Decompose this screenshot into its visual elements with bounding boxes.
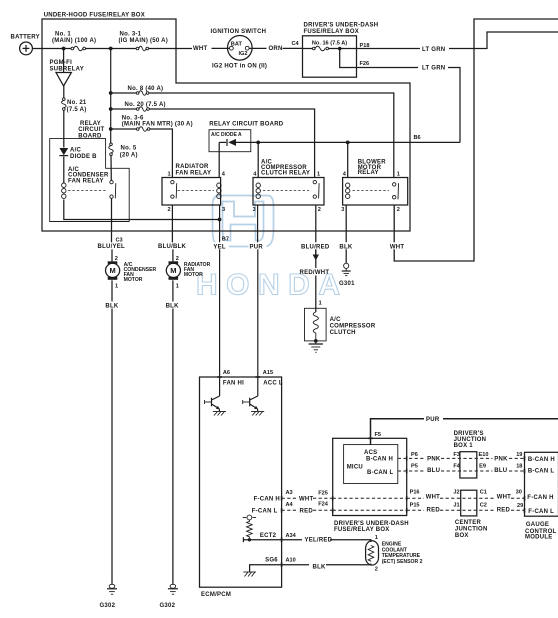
- wire PNK dashed B-CAN H row: [398, 457, 425, 459]
- svg-text:(MAIN FAN MTR) (30 A): (MAIN FAN MTR) (30 A): [122, 121, 193, 127]
- A/C compressor clutch box: [305, 308, 327, 341]
- svg-text:A34: A34: [286, 533, 297, 539]
- svg-text:RELAY: RELAY: [80, 121, 101, 127]
- svg-text:PUR: PUR: [426, 417, 440, 423]
- svg-text:1: 1: [375, 535, 378, 541]
- wire blower relay pin 4 riser: [347, 142, 349, 177]
- svg-text:2: 2: [176, 256, 179, 262]
- svg-text:PNK: PNK: [494, 457, 508, 463]
- svg-text:BLK: BLK: [313, 565, 326, 571]
- label radiator fan motor: [184, 262, 211, 278]
- svg-text:GAUGE: GAUGE: [526, 522, 549, 528]
- watermark Honda H logo: [213, 196, 274, 247]
- wire PUR net lower right: [371, 419, 425, 445]
- wire YEL/RED to ECT sensor: [282, 539, 302, 541]
- svg-text:(7.5 A): (7.5 A): [67, 107, 87, 113]
- svg-text:1: 1: [115, 284, 118, 290]
- condenser relay dashed link: [68, 189, 106, 191]
- label ECT sensor: [382, 542, 423, 566]
- svg-text:CENTER: CENTER: [455, 520, 482, 526]
- radiator relay dashed link: [178, 189, 215, 191]
- driver's junction box 1: [460, 452, 477, 478]
- svg-text:A4: A4: [286, 502, 294, 508]
- svg-text:BLU/BLK: BLU/BLK: [158, 244, 186, 250]
- center junction box: [461, 490, 477, 516]
- svg-text:F-CAN H: F-CAN H: [527, 495, 553, 501]
- wire No.20 fuse row to compressor relay pin 1: [111, 108, 137, 110]
- A/C diode A: [227, 139, 236, 146]
- svg-text:JUNCTION: JUNCTION: [455, 527, 488, 533]
- pin ticks P6 P5 P16 P15: [406, 456, 408, 461]
- wire No.16 fuse internal: [303, 48, 313, 50]
- wire BLK to ECT sensor pin 2: [282, 564, 309, 566]
- ground G301: [342, 263, 351, 275]
- svg-text:RED: RED: [300, 508, 314, 514]
- svg-text:No. 1: No. 1: [55, 31, 71, 37]
- wire No.3-6 fuse row to radiator fan relay pin 1: [111, 128, 137, 130]
- svg-text:E9: E9: [479, 463, 486, 469]
- svg-text:CIRCUIT: CIRCUIT: [78, 127, 104, 133]
- wire condenser contact to C3 BLU/YEL motor: [111, 198, 113, 243]
- svg-text:B7: B7: [222, 237, 229, 243]
- A/C compressor clutch coil: [313, 312, 318, 341]
- pin ticks gauge 19 18 30 29: [524, 456, 526, 461]
- svg-text:ORN: ORN: [269, 46, 283, 52]
- ground G302 left: [107, 584, 117, 594]
- svg-text:3: 3: [341, 207, 344, 213]
- wire No.8 fuse row to blower pin 1: [111, 92, 137, 94]
- svg-text:F-CAN L: F-CAN L: [252, 508, 278, 514]
- svg-text:RADIATOR: RADIATOR: [176, 164, 210, 170]
- ground compressor clutch: [309, 341, 323, 352]
- wire subrelay to fuse No.21: [63, 86, 65, 98]
- driver's under-dash fuse/relay box (lower): [333, 438, 407, 515]
- svg-text:B6: B6: [414, 135, 421, 141]
- svg-text:3: 3: [222, 207, 225, 213]
- svg-text:F4: F4: [453, 463, 460, 469]
- svg-text:FAN RELAY: FAN RELAY: [68, 179, 104, 185]
- wire radiator relay pin 3 B7 YEL to ECM A6: [219, 205, 221, 243]
- A/C condenser fan motor: [106, 261, 120, 280]
- svg-text:PUR: PUR: [250, 245, 264, 251]
- svg-text:G302: G302: [160, 603, 176, 609]
- svg-text:A/C: A/C: [330, 317, 342, 323]
- svg-text:1: 1: [176, 284, 179, 290]
- A/C diode A box: [209, 130, 251, 152]
- svg-text:FAN HI: FAN HI: [223, 380, 244, 386]
- ignition switch: [228, 36, 253, 61]
- wire compressor relay pin 4 riser: [257, 142, 259, 177]
- svg-text:COMPRESSOR: COMPRESSOR: [330, 323, 376, 329]
- svg-text:BLK: BLK: [166, 303, 179, 309]
- wire F-CAN H dashed through fuse box: [333, 497, 407, 499]
- driver's under-dash fuse/relay box (top): [303, 36, 357, 77]
- svg-text:SUBRELAY: SUBRELAY: [50, 66, 84, 72]
- wire color labels row: [97, 242, 408, 250]
- svg-text:2: 2: [318, 207, 321, 213]
- svg-text:P15: P15: [410, 503, 420, 509]
- fuse No.21 (7.5A) vertical: [62, 98, 67, 111]
- radiator fan relay box: [162, 178, 221, 206]
- pin tick A3: [281, 496, 283, 501]
- svg-text:A10: A10: [286, 558, 296, 564]
- wire F-CAN L dashed through fuse box: [333, 509, 407, 511]
- svg-text:BATTERY: BATTERY: [11, 35, 40, 41]
- compressor relay contact: [313, 180, 319, 198]
- svg-text:No. 16 (7.5 A): No. 16 (7.5 A): [312, 40, 347, 46]
- wire F26 branch: [340, 49, 418, 68]
- wire compressor relay pin 3 PUR to ECM A15: [257, 205, 259, 243]
- svg-text:1: 1: [317, 172, 320, 178]
- svg-text:IG2: IG2: [239, 51, 248, 57]
- svg-text:F-CAN L: F-CAN L: [528, 509, 554, 515]
- svg-text:PNK: PNK: [427, 457, 441, 463]
- pin tick A34: [281, 537, 283, 542]
- fuse No.20 (7.5A): [136, 107, 149, 112]
- svg-text:G302: G302: [100, 603, 116, 609]
- ECT sensor 2 body: [366, 541, 379, 565]
- svg-text:MOTOR: MOTOR: [184, 272, 203, 278]
- connector arrow on BLU/RED wire: [313, 249, 319, 261]
- svg-text:2: 2: [375, 567, 378, 573]
- svg-text:P16: P16: [410, 490, 420, 496]
- svg-text:ECM/PCM: ECM/PCM: [201, 592, 231, 598]
- svg-text:BLU: BLU: [427, 468, 440, 474]
- svg-text:MICU: MICU: [347, 464, 363, 470]
- wire BLU/RED connector to RED/WHT: [315, 249, 317, 268]
- svg-text:E10: E10: [479, 452, 489, 458]
- svg-text:J2: J2: [453, 490, 459, 496]
- svg-text:BLU/YEL: BLU/YEL: [98, 244, 126, 250]
- svg-text:FUSE/RELAY BOX: FUSE/RELAY BOX: [304, 29, 360, 35]
- wire RED/WHT to compressor clutch: [315, 276, 317, 313]
- svg-text:F5: F5: [375, 432, 382, 438]
- wire A15 internal to transistor Q2: [257, 377, 259, 396]
- svg-text:30: 30: [516, 490, 522, 496]
- A/C diode B: [59, 148, 68, 156]
- svg-text:BOX 1: BOX 1: [454, 443, 474, 449]
- svg-text:WHT: WHT: [299, 496, 313, 502]
- wire condenser relay coil return to radiator relay pin 3 node: [64, 200, 219, 220]
- svg-text:C4: C4: [292, 41, 300, 47]
- pin tick A15: [255, 376, 260, 378]
- blower relay contact: [393, 183, 399, 200]
- pin tick A4: [281, 508, 283, 513]
- svg-text:RELAY: RELAY: [358, 170, 379, 176]
- svg-text:BLU/RED: BLU/RED: [301, 245, 330, 251]
- wire blower relay pin 3 BLK to G301: [345, 205, 347, 243]
- svg-text:LT GRN: LT GRN: [422, 65, 445, 71]
- svg-text:F3: F3: [453, 452, 460, 458]
- wire BLU dashed B-CAN L row: [398, 470, 425, 472]
- compressor relay coil: [256, 183, 260, 198]
- transistor Q1 FAN HI: [205, 396, 220, 411]
- A/C condenser fan relay outline: [50, 139, 130, 222]
- fuse No.5 (20A) vertical: [109, 143, 114, 156]
- svg-text:CLUTCH: CLUTCH: [330, 330, 356, 336]
- svg-text:C1: C1: [480, 490, 487, 496]
- blower motor relay box: [343, 178, 408, 206]
- wire condenser motor to G302: [111, 280, 113, 301]
- svg-text:19: 19: [516, 452, 522, 458]
- fuse No.16 (7.5A): [313, 46, 329, 51]
- svg-text:BLU: BLU: [494, 468, 507, 474]
- resistor pull-up ECT2: [243, 515, 256, 538]
- svg-text:DRIVER'S UNDER-DASH: DRIVER'S UNDER-DASH: [304, 23, 379, 29]
- svg-text:WHT: WHT: [497, 495, 511, 501]
- battery: [20, 42, 33, 55]
- svg-text:C2: C2: [480, 503, 487, 509]
- svg-text:F26: F26: [360, 61, 370, 67]
- svg-text:RED: RED: [427, 508, 441, 514]
- ground SG6: [243, 572, 256, 577]
- svg-text:M: M: [170, 266, 176, 275]
- pin tick A6: [217, 376, 222, 378]
- svg-text:No. 20 (7.5 A): No. 20 (7.5 A): [125, 102, 166, 108]
- svg-text:A/C: A/C: [70, 148, 82, 154]
- wire diode B to condenser relay coil: [63, 157, 65, 184]
- svg-text:P5: P5: [411, 463, 418, 469]
- svg-text:(MAIN) (100 A): (MAIN) (100 A): [52, 38, 96, 44]
- svg-text:2: 2: [167, 207, 170, 213]
- wire No.5 fuse to condenser relay contact: [110, 156, 112, 181]
- svg-text:BLK: BLK: [105, 303, 118, 309]
- condenser relay coil: [62, 183, 66, 198]
- svg-text:ACS: ACS: [364, 450, 377, 456]
- svg-text:F-CAN H: F-CAN H: [254, 497, 280, 503]
- svg-text:PGM-FI: PGM-FI: [50, 60, 73, 66]
- wire LT GRN from F26 down to coil line: [448, 68, 460, 143]
- fuse No.1 (MAIN)(100A): [71, 46, 85, 51]
- svg-text:A3: A3: [286, 490, 293, 496]
- svg-text:P6: P6: [411, 452, 418, 458]
- svg-text:A15: A15: [263, 370, 273, 376]
- ground G302 right: [168, 584, 178, 594]
- svg-text:2: 2: [397, 207, 400, 213]
- MICU box: [344, 445, 398, 484]
- svg-text:RED/WHT: RED/WHT: [300, 270, 330, 276]
- wire fuse feeder vertical: [110, 49, 112, 144]
- svg-text:BOX: BOX: [455, 533, 469, 539]
- pin tick F5: [368, 437, 373, 439]
- svg-text:FUSE/RELAY BOX: FUSE/RELAY BOX: [334, 527, 390, 533]
- wire battery main bus: [32, 48, 71, 50]
- svg-text:DRIVER'S UNDER-DASH: DRIVER'S UNDER-DASH: [334, 521, 409, 527]
- wire WHT dashed P16 to J2 C1 30: [407, 497, 424, 499]
- svg-text:F25: F25: [318, 491, 328, 497]
- wire radiator relay pin 2 BLU/BLK to motor: [171, 205, 173, 243]
- svg-text:P18: P18: [360, 43, 370, 49]
- svg-text:F24: F24: [318, 501, 329, 507]
- ground transistor Q1: [213, 412, 226, 416]
- svg-text:A/C DIODE A: A/C DIODE A: [211, 132, 242, 138]
- pin tick A10: [281, 562, 283, 567]
- pin ticks F25 F24: [332, 496, 334, 501]
- svg-text:YEL: YEL: [213, 245, 226, 251]
- svg-text:DIODE B: DIODE B: [70, 154, 97, 160]
- gauge control module box: [525, 452, 558, 516]
- svg-text:CLUTCH RELAY: CLUTCH RELAY: [261, 171, 310, 177]
- svg-text:18: 18: [516, 463, 522, 469]
- svg-text:1: 1: [167, 172, 170, 178]
- svg-text:A6: A6: [223, 370, 230, 376]
- svg-text:J1: J1: [453, 503, 459, 509]
- blower relay dashed link: [353, 189, 390, 191]
- wire A6 internal to transistor Q1: [219, 377, 221, 396]
- svg-text:1: 1: [397, 172, 400, 178]
- svg-text:No. 5: No. 5: [121, 146, 137, 152]
- svg-text:UNDER-HOOD FUSE/RELAY BOX: UNDER-HOOD FUSE/RELAY BOX: [44, 13, 145, 19]
- svg-text:MOTOR: MOTOR: [124, 277, 143, 283]
- fuse No.8 (40A): [136, 91, 149, 96]
- wire radiator motor to G302: [172, 280, 174, 301]
- svg-text:RED: RED: [497, 508, 511, 514]
- svg-text:(IG MAIN) (50 A): (IG MAIN) (50 A): [119, 38, 168, 44]
- wire RED dashed P15 to J1 C2 29: [407, 509, 424, 511]
- svg-text:2: 2: [115, 256, 118, 262]
- radiator fan relay coil: [217, 183, 221, 198]
- svg-text:29: 29: [517, 503, 523, 509]
- svg-text:3: 3: [253, 207, 256, 213]
- svg-text:BOARD: BOARD: [78, 133, 102, 139]
- svg-text:ACC L: ACC L: [263, 380, 283, 386]
- svg-text:RELAY CIRCUIT BOARD: RELAY CIRCUIT BOARD: [209, 121, 284, 127]
- svg-text:LT GRN: LT GRN: [422, 47, 445, 53]
- svg-text:B-CAN L: B-CAN L: [367, 470, 393, 476]
- svg-text:ECT2: ECT2: [260, 533, 277, 539]
- svg-text:B-CAN H: B-CAN H: [528, 457, 555, 463]
- svg-text:B-CAN L: B-CAN L: [528, 469, 554, 475]
- wire fuse No.21 to diode B: [63, 110, 65, 147]
- radiator fan relay contact: [171, 180, 177, 198]
- condenser relay contact: [110, 180, 116, 198]
- blower relay coil: [346, 183, 350, 198]
- fuse No.3-1 (IG MAIN)(50A): [136, 46, 148, 51]
- wire relay coil power line B6: [219, 141, 226, 143]
- svg-text:SG6: SG6: [265, 558, 278, 564]
- svg-text:WHT: WHT: [390, 245, 404, 251]
- under-hood fuse/relay box: [42, 19, 410, 231]
- wire F-CAN H dashed A3 to F25: [282, 497, 297, 499]
- svg-text:No. 8 (40 A): No. 8 (40 A): [128, 86, 164, 92]
- wire LT GRN from P18 to top right edge: [357, 48, 421, 50]
- wire ECT2 A34 internal: [243, 537, 281, 542]
- svg-text:G301: G301: [339, 281, 355, 287]
- A/C compressor clutch relay box: [253, 178, 324, 206]
- svg-text:FAN RELAY: FAN RELAY: [176, 171, 212, 177]
- svg-text:B-CAN H: B-CAN H: [366, 456, 393, 462]
- label A/C condenser fan motor: [124, 262, 157, 283]
- svg-text:(ECT) SENSOR 2: (ECT) SENSOR 2: [382, 559, 423, 565]
- transistor Q2 ACC L: [243, 396, 258, 411]
- svg-text:M: M: [109, 266, 115, 275]
- svg-text:IGNITION SWITCH: IGNITION SWITCH: [211, 29, 267, 35]
- ECM/PCM box: [200, 377, 282, 587]
- wire ORN ignition to C4: [249, 47, 266, 49]
- svg-text:(20 A): (20 A): [120, 153, 138, 159]
- svg-text:MODULE: MODULE: [525, 535, 553, 541]
- radiator fan motor: [166, 261, 180, 280]
- svg-text:No. 21: No. 21: [67, 100, 87, 106]
- wire WHT ignition feed: [212, 47, 230, 49]
- svg-text:WHT: WHT: [426, 495, 440, 501]
- wire WHT blower to top right edge: [394, 19, 558, 261]
- fuse No.3-6 (MAIN FAN MTR)(30A): [136, 127, 150, 132]
- compressor relay dashed link: [263, 189, 309, 191]
- svg-text:BAT: BAT: [231, 42, 243, 48]
- wire compressor relay pin 2 BLU/RED: [315, 205, 317, 243]
- svg-text:No. 3-1: No. 3-1: [120, 31, 142, 37]
- wire F-CAN L dashed A4 to F24: [282, 509, 297, 511]
- svg-text:WHT: WHT: [193, 46, 207, 52]
- svg-text:BLK: BLK: [339, 245, 352, 251]
- ground transistor Q2: [251, 412, 264, 416]
- wire SG6 A10 internal: [250, 565, 282, 572]
- svg-text:1: 1: [319, 301, 322, 307]
- PGM-FI subrelay: [56, 73, 71, 87]
- svg-text:YEL/RED: YEL/RED: [305, 538, 333, 544]
- svg-text:IG2 HOT in ON (II): IG2 HOT in ON (II): [212, 64, 267, 70]
- wire PGM-FI subrelay feed: [63, 49, 65, 73]
